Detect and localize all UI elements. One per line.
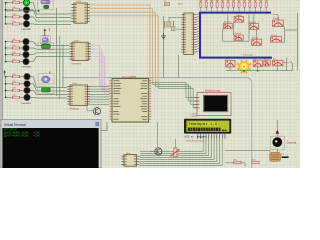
resistor G3-R2	[12, 81, 20, 85]
transistor VT1	[93, 108, 100, 115]
wire G3-led4-right	[30, 96, 33, 98]
svg-text:K555ИВ3: K555ИВ3	[70, 108, 80, 110]
IC DD1 pins	[71, 4, 89, 22]
sensor S4 (motion)	[38, 74, 54, 84]
wire G3-led1-right	[30, 76, 33, 78]
wire G1-r3-led	[20, 16, 24, 18]
svg-text:10k: 10k	[12, 14, 15, 16]
svg-text:Реле6: Реле6	[273, 18, 280, 20]
svg-text:x: x	[49, 70, 51, 74]
resistor network top row	[199, 0, 268, 12]
wire G3-led2-right	[30, 83, 33, 85]
IC DD3 pins	[67, 86, 90, 105]
IC DD1 body	[74, 3, 87, 23]
resistor G1-R1	[12, 0, 20, 4]
svg-text:ДАТЧИК 006:... ОК.: ДАТЧИК 006:... ОК.	[4, 135, 42, 138]
wire crystal to U2	[169, 17, 181, 29]
sensor S5 (gas2, green)	[38, 86, 54, 93]
terminal title bar	[2, 121, 99, 128]
svg-text:Реле5: Реле5	[252, 37, 259, 39]
wire DD5 right rows	[138, 157, 141, 166]
svg-text:10k: 10k	[12, 88, 15, 90]
wire G2-r1-led	[20, 41, 24, 43]
svg-text:Компьютер: Компьютер	[205, 89, 221, 93]
relay Реле2	[234, 15, 244, 22]
wire vertical U2 bottom	[178, 55, 180, 78]
resistor G2-R4	[12, 59, 20, 63]
svg-text:10k: 10k	[12, 59, 15, 61]
terminal screen	[2, 128, 98, 168]
svg-text:LED-RED: LED-RED	[22, 103, 32, 105]
wire left bus G1	[5, 2, 12, 25]
wire VT1	[87, 106, 93, 111]
svg-text:Реле: Реле	[273, 14, 279, 16]
wire G2-r3-led	[20, 54, 24, 56]
LED G2-D3	[23, 51, 29, 57]
sensor S3 (gas, green)	[38, 43, 54, 50]
svg-text:Температ 1.0: Температ 1.0	[188, 122, 217, 126]
resistor G3-R1	[12, 74, 20, 78]
computer pins	[194, 97, 199, 108]
wire siren to coil	[276, 150, 278, 153]
wire G3-r1-led	[20, 76, 24, 78]
wire G2-led4-right	[29, 61, 33, 63]
LED G2-D1	[23, 38, 29, 44]
relay К2	[253, 58, 262, 66]
LCD pin stubs	[198, 134, 225, 139]
bus entry ticks U2 to bus	[196, 14, 199, 52]
wire vertical trunk B	[59, 36, 61, 99]
resistor G2-R3	[12, 52, 20, 56]
LED G1-D4	[23, 21, 29, 27]
relay К4	[273, 59, 283, 66]
wire tan bundle DD1 to computer	[90, 5, 194, 108]
relay К1	[226, 59, 235, 67]
svg-text:DD2: DD2	[75, 40, 80, 42]
wire left bus G2	[5, 41, 12, 63]
svg-text:10k: 10k	[12, 52, 15, 54]
svg-text:10k: 10k	[12, 21, 15, 23]
resistor G2-R1	[12, 39, 20, 43]
wire G2-led3-right	[29, 54, 33, 56]
svg-text:10k: 10k	[12, 74, 15, 76]
wire G1-r4-led	[20, 23, 24, 25]
svg-text:10k: 10k	[12, 95, 15, 97]
label LCD	[191, 114, 199, 119]
MCU U1 pins	[109, 80, 151, 119]
svg-text:DD3: DD3	[73, 83, 78, 85]
resistor R21	[234, 160, 241, 164]
svg-text:Вент ХВ: Вент ХВ	[284, 62, 293, 64]
LCD line2	[188, 128, 227, 131]
wire LCD staircase	[140, 139, 222, 166]
wire MCU to terminal	[101, 122, 107, 131]
ground symbol U2	[161, 33, 166, 39]
LED G3-D2	[24, 81, 30, 87]
wire G3-r2-led	[20, 83, 24, 85]
wire rows group1 to IC1	[33, 3, 71, 25]
power arrow group2	[3, 70, 6, 75]
resistor G1-R2	[12, 7, 20, 11]
wire G1-led4-right	[30, 23, 34, 25]
IC DD2 pins	[69, 43, 90, 59]
IC DD2 body	[72, 42, 88, 60]
wire G2-r4-led	[20, 61, 24, 63]
potentiometer RV1	[170, 139, 180, 157]
LED G3-D1	[24, 73, 30, 79]
svg-text:DD4: DD4	[178, 4, 183, 6]
wire left bus G3	[5, 76, 12, 99]
IC DD5 body	[124, 155, 137, 167]
wire vertical trunk C	[62, 44, 64, 87]
LED G3-D4	[24, 94, 30, 100]
LED G2-D2	[23, 45, 29, 51]
relay К3	[264, 58, 270, 66]
bus blue main	[200, 13, 272, 58]
window left border	[0, 0, 3, 168]
wire vertical trunk A	[56, 8, 58, 96]
wire G3-r4-led	[20, 96, 24, 98]
relay Реле3	[234, 33, 243, 40]
svg-text:822 ак. редакц.: 822 ак. редакц.	[184, 136, 207, 139]
LCD line1	[188, 122, 218, 126]
wire G2-led2-right	[29, 47, 33, 49]
resistor G1-R4	[12, 21, 20, 25]
svg-text:10k: 10k	[12, 0, 15, 2]
IC DD5 pins	[121, 156, 139, 166]
svg-text:VDD VSS контраст: VDD VSS контраст	[186, 141, 205, 143]
transistor VT2	[155, 148, 162, 155]
wire rows group2 to IC2	[33, 42, 69, 62]
crystal X1	[165, 21, 174, 28]
svg-text:Сирена: Сирена	[286, 141, 296, 145]
wire G3-r3-led	[20, 89, 24, 91]
IC U2 pins	[181, 14, 196, 52]
wire relay area	[223, 13, 298, 71]
svg-text:Реле4: Реле4	[249, 22, 256, 24]
wire S1 bottom	[6, 10, 40, 12]
terminal text	[4, 128, 42, 137]
wire G2-led1-right	[29, 41, 33, 43]
svg-text:DD5: DD5	[126, 153, 131, 155]
svg-text:K555ИВ3: K555ИВ3	[72, 64, 82, 66]
svg-text:LED-RED: LED-RED	[22, 29, 32, 31]
wire G1-r2-led	[20, 9, 24, 11]
wire G1-led1-right	[30, 2, 34, 4]
resistor G2-R2	[12, 45, 20, 49]
wire bottom-right links	[225, 151, 270, 167]
svg-text:Реле2: Реле2	[236, 15, 243, 17]
relay Реле6	[273, 18, 284, 26]
wire G1-r1-led	[20, 2, 24, 4]
wire VT2	[150, 122, 158, 151]
wire G2-r2-led	[20, 47, 24, 49]
LCD pin labels	[184, 136, 207, 139]
sensor S2 (button)	[40, 36, 50, 44]
lamp HL1	[237, 60, 251, 74]
wire G1-led2-right	[30, 9, 34, 11]
LED G3-D3	[24, 87, 30, 93]
wire rows group3 to IC3	[33, 77, 67, 98]
terminal window frame	[1, 119, 101, 168]
svg-text:Реле3: Реле3	[235, 33, 242, 35]
svg-text:10k: 10k	[12, 81, 15, 83]
relay Реле7	[271, 35, 282, 42]
resistor G3-R3	[12, 88, 20, 92]
svg-text:z: z	[49, 28, 51, 32]
LED G1-D2	[23, 7, 29, 13]
svg-text:LED-RED: LED-RED	[22, 67, 32, 69]
wire G1-led3-right	[30, 16, 34, 18]
wire DD3 to MCU rows	[90, 87, 109, 105]
MCU U1 body	[112, 79, 149, 122]
svg-text:DD1: DD1	[77, 1, 82, 3]
LED G2-D4	[23, 58, 29, 64]
LED G1-D3	[23, 14, 29, 20]
sensor S1 (smoke)	[38, 0, 54, 10]
siren box	[271, 136, 285, 149]
svg-text:Virtual Terminal: Virtual Terminal	[4, 123, 26, 127]
svg-text:LM016L: LM016L	[191, 116, 199, 118]
svg-text:Реле1: Реле1	[224, 21, 231, 23]
wire pink bundle DD2 to MCU	[91, 46, 112, 93]
svg-text:10k: 10k	[12, 45, 15, 47]
LED G1-D1	[23, 0, 29, 6]
capacitor C1	[164, 1, 170, 6]
relay Реле1	[224, 21, 233, 28]
siren speaker	[272, 137, 282, 147]
relay Реле4	[249, 22, 259, 30]
IC U2 body (tall)	[184, 13, 194, 55]
relay Реле5	[252, 37, 262, 45]
svg-text:10k: 10k	[12, 7, 15, 9]
power arrow S2	[44, 28, 46, 35]
IC DD3 body	[70, 85, 87, 106]
wire lamp row	[226, 58, 293, 74]
svg-text:10k: 10k	[12, 39, 15, 41]
svg-text:Реле упр.: Реле упр.	[244, 54, 254, 56]
resistor G3-R4	[12, 95, 20, 99]
computer box	[197, 93, 231, 116]
wire G3-led3-right	[30, 89, 33, 91]
svg-text:Реле7: Реле7	[271, 35, 278, 37]
wire siren top	[276, 120, 278, 136]
capacitor C2	[171, 26, 175, 30]
resistor R22	[252, 160, 259, 164]
power arrow siren	[275, 130, 279, 134]
svg-text:T1: T1	[281, 154, 284, 156]
svg-text:ATmega8535: ATmega8535	[122, 76, 137, 79]
wire vertical near U2	[163, 16, 165, 78]
LCD module	[184, 119, 231, 134]
resistor G1-R3	[12, 14, 20, 18]
section outline box	[62, 78, 252, 168]
coil body	[270, 153, 289, 162]
